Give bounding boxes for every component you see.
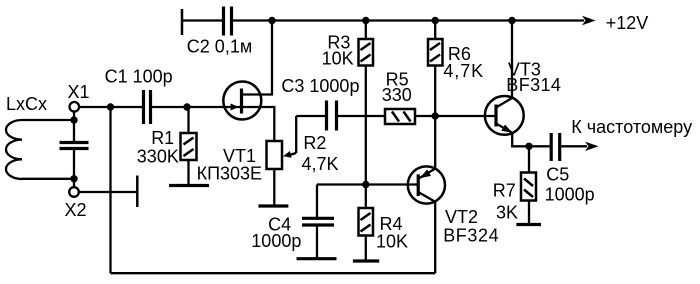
svg-text:X2: X2 <box>65 200 87 220</box>
inductor LxCx <box>6 120 22 179</box>
node junction above X2 <box>70 175 77 182</box>
node junction R1 top <box>183 103 190 110</box>
wire VT1 drain to rail <box>242 21 273 95</box>
node junction on rail above R6 <box>432 17 439 24</box>
wire VT1 source to R2 <box>242 107 275 141</box>
wire coil bottom to X2 node <box>22 178 74 180</box>
wire node to R7 <box>528 146 530 172</box>
wire feedback bottom rail <box>111 272 436 274</box>
VT3 emitter with outward arrow <box>496 124 512 133</box>
terminal X2 <box>69 187 79 197</box>
svg-text:1000p: 1000p <box>251 231 301 251</box>
svg-text:C5: C5 <box>546 164 569 184</box>
VT1 gate arrow <box>231 104 239 111</box>
capacitor C2 <box>222 7 225 36</box>
wire R5 to VT3 base <box>415 115 496 117</box>
capacitor C1 <box>142 90 145 124</box>
capacitor C4 <box>316 185 318 218</box>
svg-text:VT2: VT2 <box>445 207 478 227</box>
node junction R6/R5/VT2 emitter <box>432 112 439 119</box>
svg-text:4,7K: 4,7K <box>302 154 339 174</box>
transistor VT2 (PNP) circle <box>408 166 445 203</box>
node junction on rail above R3 <box>362 17 369 24</box>
svg-text:10K: 10K <box>322 48 354 68</box>
wire gate line X1 to C1 <box>79 106 142 108</box>
ground bar R4 <box>353 259 379 262</box>
wire VT3 emitter to output node <box>512 133 529 147</box>
VT2 collector <box>418 192 435 202</box>
VT1 channel bar <box>240 89 243 114</box>
terminal X1 <box>70 102 80 112</box>
svg-text:КП303Е: КП303Е <box>197 164 262 184</box>
node junction below X1 <box>70 116 77 123</box>
resistor R3 <box>359 39 374 66</box>
ground bar C4 <box>297 257 337 260</box>
wire R1 to ground <box>187 160 189 186</box>
capacitor C2 end bar (left stub terminal) <box>181 9 184 35</box>
svg-text:4,7K: 4,7K <box>443 61 484 81</box>
wire X1 stem <box>73 112 75 121</box>
VT2 base bar <box>417 174 420 196</box>
svg-text:C1 100p: C1 100p <box>105 67 173 87</box>
svg-text:10K: 10K <box>376 231 408 251</box>
chassis end bar at X2 wire <box>136 176 139 208</box>
wire node down to R4 <box>365 185 367 209</box>
svg-text:К частотомеру: К частотомеру <box>571 117 692 137</box>
svg-text:R1: R1 <box>151 128 174 148</box>
wire X2 to chassis stub <box>79 191 138 193</box>
wire node down to VT2 emitter <box>434 116 436 169</box>
ground bar R1 <box>169 184 209 187</box>
wire C3 left <box>296 115 325 117</box>
node junction feedback tap <box>107 103 114 110</box>
wire R4 to ground <box>365 236 367 261</box>
resistor R4 <box>359 208 374 236</box>
VT3 base bar <box>494 105 497 127</box>
wire coil top to X1 node <box>22 119 74 121</box>
arrowhead +12V rail <box>582 16 596 25</box>
svg-text:LxCx: LxCx <box>6 94 47 114</box>
svg-text:1000p: 1000p <box>545 185 595 205</box>
arrowhead output <box>585 142 599 151</box>
wire rail to R6 <box>434 21 436 40</box>
wire +12V rail <box>233 19 584 21</box>
wire feedback up to VT2 collector <box>434 202 436 273</box>
svg-text:+12V: +12V <box>606 13 649 33</box>
resistor R7 <box>521 173 536 201</box>
R2 wiper wire from C3 <box>295 116 297 153</box>
resistor R6 <box>428 39 443 66</box>
wire R2 to ground <box>273 169 275 206</box>
svg-text:X1: X1 <box>68 82 90 102</box>
resistor R1 <box>181 133 197 160</box>
wire C5 to output arrow <box>561 145 587 147</box>
wire C2 left <box>182 19 222 21</box>
svg-text:3K: 3K <box>496 202 518 222</box>
wire VT2 base node <box>317 183 418 185</box>
svg-text:BF314: BF314 <box>506 75 561 95</box>
wire down to R1 <box>187 107 189 133</box>
VT2 emitter with arrow to base <box>419 169 435 179</box>
node junction on rail above VT3 collector <box>508 17 515 24</box>
ground bar R7 <box>516 223 541 226</box>
wire R6 bottom to node at y116 <box>434 66 436 117</box>
transistor VT3 (NPN) circle <box>485 96 524 135</box>
svg-text:330: 330 <box>382 85 412 105</box>
wire X2 stem <box>73 179 75 187</box>
wire R7 to ground <box>528 201 530 225</box>
VT3 collector <box>496 98 512 108</box>
wire node to C5 <box>529 145 550 147</box>
svg-text:R2: R2 <box>303 133 326 153</box>
wire VT3 collector to rail <box>511 21 513 99</box>
capacitor Cx (parallel to coil) <box>73 120 75 142</box>
node junction on rail above VT1 drain <box>268 17 275 24</box>
op-amp VT1 JFET circle <box>223 82 261 120</box>
node junction R3/R4/C4/VT2 base <box>362 181 369 188</box>
svg-text:R7: R7 <box>493 180 516 200</box>
resistor R2 (trimmer body) <box>267 141 283 169</box>
node junction emitter/R7/C5 <box>525 143 532 150</box>
wire C3 to R5 <box>338 115 385 117</box>
wire R3 bottom down to VT2 base node <box>365 66 367 185</box>
wire C1 to VT1 gate <box>152 106 242 108</box>
svg-text:BF324: BF324 <box>443 225 499 245</box>
svg-text:C2 0,1м: C2 0,1м <box>187 36 252 56</box>
R2 wiper arrow <box>288 153 296 155</box>
wire rail to R3 <box>365 21 367 40</box>
svg-text:C3 1000p: C3 1000p <box>281 76 359 96</box>
capacitor C3 <box>325 101 328 131</box>
wire feedback vertical left <box>109 107 111 273</box>
svg-text:330K: 330K <box>137 146 179 166</box>
resistor R5 <box>385 109 415 124</box>
capacitor C5 <box>550 133 553 161</box>
ground bar R2 <box>258 204 288 207</box>
